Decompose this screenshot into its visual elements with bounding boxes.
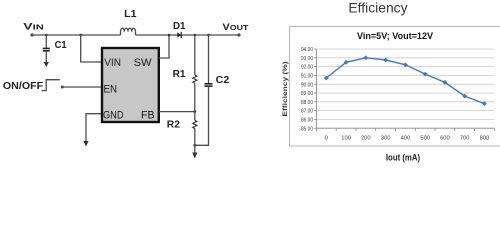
node EN terminal — [61, 86, 64, 89]
svg-text:400: 400 — [401, 136, 411, 142]
svg-text:Vin=5V; Vout=12V: Vin=5V; Vout=12V — [357, 31, 434, 42]
wire: rail to R1 — [194, 35, 196, 75]
svg-text:Efficiency: Efficiency — [348, 0, 407, 15]
svg-text:SW: SW — [134, 57, 153, 69]
y axis line — [315, 49, 317, 128]
svg-text:C2: C2 — [216, 74, 230, 86]
y axis ticks — [314, 49, 316, 128]
node junction SW — [168, 34, 171, 37]
svg-text:GND: GND — [103, 110, 124, 122]
node junction C2 top — [207, 34, 210, 37]
svg-text:200: 200 — [361, 136, 371, 142]
svg-text:800: 800 — [480, 136, 490, 142]
svg-text:700: 700 — [460, 136, 470, 142]
wire: C1 to ground — [45, 51, 47, 63]
ground (IC GND) — [83, 141, 88, 147]
ground (C1) — [44, 62, 49, 67]
wire: top rail VIN to L1 — [32, 34, 121, 36]
wire: R2 to ground node — [194, 129, 196, 146]
svg-text:R2: R2 — [167, 118, 180, 130]
x axis labels — [325, 136, 490, 142]
capacitor C1 — [43, 48, 50, 50]
ground (output) — [192, 153, 197, 159]
node junction FB — [194, 110, 197, 113]
resistor R2 — [193, 120, 197, 128]
wire: SW pin to rail — [159, 35, 169, 58]
wire: C1 branch — [45, 35, 47, 48]
data markers — [324, 55, 487, 106]
svg-text:91.00: 91.00 — [301, 74, 313, 80]
svg-text:600: 600 — [440, 136, 450, 142]
chart frame — [290, 27, 500, 147]
inductor L1 — [121, 28, 136, 35]
svg-text:EN: EN — [104, 84, 118, 96]
capacitor C2 — [205, 84, 213, 86]
svg-text:89.00: 89.00 — [301, 91, 313, 97]
svg-text:L1: L1 — [124, 8, 137, 20]
node VOUT terminal — [237, 33, 240, 36]
svg-text:85.00: 85.00 — [301, 126, 313, 132]
wire: EN to IC — [62, 86, 101, 88]
node junction VIN-pin branch — [79, 34, 82, 37]
resistor R1 — [193, 75, 197, 83]
node junction R1 — [194, 34, 197, 37]
signal edge symbol — [42, 80, 60, 91]
wire: FB node to R2 — [194, 112, 196, 121]
node junction ground — [194, 144, 197, 147]
svg-text:VIN: VIN — [23, 22, 44, 32]
svg-text:94.00: 94.00 — [301, 47, 313, 53]
svg-text:300: 300 — [381, 136, 391, 142]
wire: top rail L1 to VOUT — [136, 34, 240, 36]
diode D1 — [177, 32, 181, 37]
wire: FB pin — [159, 111, 195, 113]
wire: rail to IC VIN pin — [81, 35, 102, 62]
svg-text:500: 500 — [420, 136, 430, 142]
wire: C2 to ground node — [195, 86, 209, 145]
svg-text:VIN: VIN — [104, 57, 121, 69]
gridlines — [316, 49, 494, 119]
svg-text:ON/OFF: ON/OFF — [3, 81, 43, 92]
wire: to bottom ground — [194, 145, 196, 153]
svg-text:86.00: 86.00 — [301, 118, 313, 124]
data series line — [326, 58, 484, 104]
svg-text:100: 100 — [341, 136, 351, 142]
svg-text:R1: R1 — [173, 68, 186, 80]
svg-text:87.00: 87.00 — [301, 109, 313, 115]
y axis labels — [301, 47, 313, 132]
x axis line — [316, 127, 494, 129]
op-amp U1 : converter IC block — [102, 48, 159, 122]
svg-text:88.00: 88.00 — [301, 100, 313, 106]
svg-text:C1: C1 — [55, 39, 67, 51]
svg-text:93.00: 93.00 — [301, 56, 313, 62]
node junction C1 — [45, 34, 48, 37]
svg-text:Iout (mA): Iout (mA) — [386, 153, 420, 163]
svg-text:Efficiency (%): Efficiency (%) — [283, 61, 289, 116]
svg-text:FB: FB — [141, 110, 155, 122]
svg-text:90.00: 90.00 — [301, 82, 313, 88]
wire: R1 to FB node — [194, 83, 196, 111]
svg-text:VOUT: VOUT — [222, 22, 249, 32]
svg-text:0: 0 — [325, 136, 328, 142]
wire: IC GND pin to ground — [86, 114, 102, 142]
node VIN terminal — [30, 33, 33, 36]
svg-text:D1: D1 — [173, 20, 186, 32]
svg-text:92.00: 92.00 — [301, 65, 313, 71]
x axis ticks — [316, 128, 494, 131]
wire: rail to C2 — [208, 35, 210, 83]
